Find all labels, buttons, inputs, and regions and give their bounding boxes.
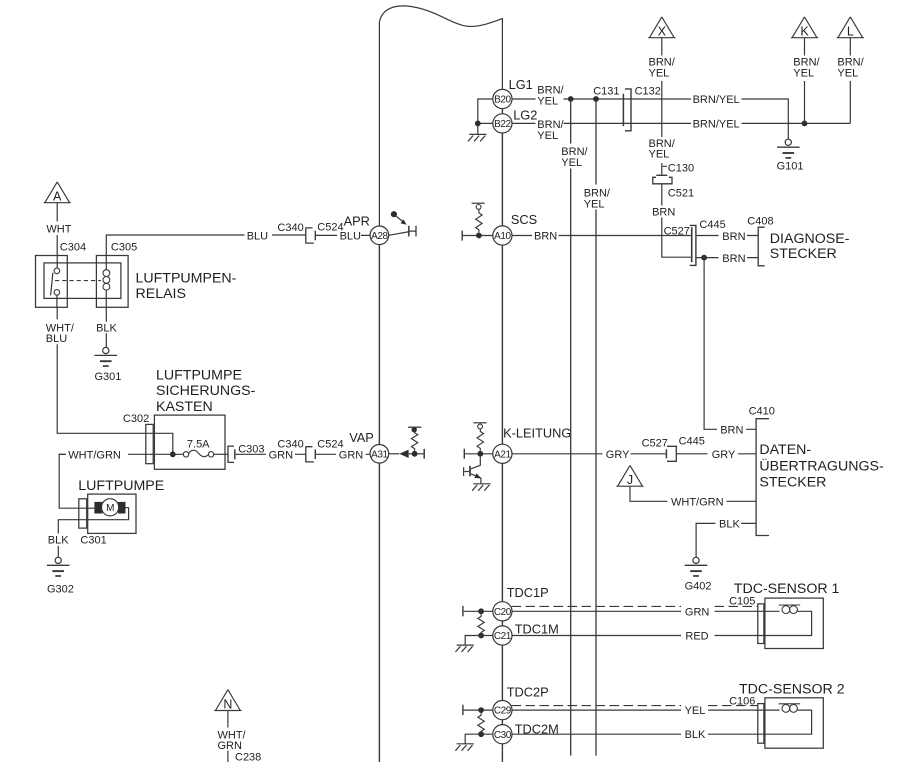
bus wire B BRN/YEL vertical	[595, 99, 597, 756]
svg-text:BRN/YEL: BRN/YEL	[693, 118, 740, 130]
svg-text:C521: C521	[668, 187, 694, 199]
ECM pin line segment C20-C21	[501, 621, 503, 626]
DATEN connector bracket C410	[756, 419, 769, 536]
fuse box internal feed branch	[146, 433, 173, 454]
svg-text:C132: C132	[635, 86, 661, 98]
relay pin BLK wire down	[105, 307, 107, 347]
svg-text:C445: C445	[699, 219, 725, 231]
wire L BRN/YEL	[849, 38, 851, 124]
svg-text:GRN: GRN	[218, 740, 243, 752]
wire BRN diagnose to DATEN	[704, 258, 756, 430]
svg-text:C340: C340	[277, 439, 303, 451]
relay switch lever	[51, 273, 53, 296]
svg-text:WHT/GRN: WHT/GRN	[671, 496, 724, 508]
connector C303 male	[234, 449, 236, 459]
svg-text:BLU: BLU	[247, 231, 268, 243]
connector C132 female bracket	[625, 89, 631, 131]
svg-text:STECKER: STECKER	[759, 475, 826, 491]
TDC sensor 2 coil	[764, 710, 812, 734]
wire GRN TDC1P	[512, 610, 765, 612]
svg-text:C20: C20	[494, 607, 512, 618]
relay coil loop 1	[103, 270, 110, 277]
SCS pull-up resistor	[476, 209, 482, 232]
TDC1 bias resistor	[478, 614, 484, 633]
wire LG2 internal to logic ground	[478, 99, 493, 134]
junction dot diagnose row2	[701, 255, 707, 261]
svg-text:C340: C340	[277, 222, 303, 234]
svg-text:C130: C130	[668, 163, 694, 175]
wire GRN C303 to C340	[236, 453, 306, 455]
fuse 7.5A contact right	[208, 452, 213, 457]
chassis ground at TDC1	[455, 645, 473, 652]
wire LG2 row BRN/YEL	[512, 122, 850, 124]
connector C445 female bracket (diagnose)	[690, 225, 696, 265]
connector C524 male (BLU row)	[314, 231, 316, 241]
svg-text:YEL: YEL	[537, 95, 558, 107]
svg-text:C238: C238	[235, 752, 261, 762]
triangle J	[616, 465, 643, 486]
wire WHT/GRN N down	[227, 711, 229, 762]
ECM left outline vertical edge (middle)	[378, 245, 380, 445]
junction in fuse box	[170, 451, 176, 457]
svg-text:STECKER: STECKER	[770, 246, 837, 262]
terminal A31 (VAP)	[370, 445, 389, 464]
wire BRN SCS row	[512, 235, 691, 237]
connector C521 female U	[653, 177, 672, 184]
svg-text:C21: C21	[494, 631, 512, 642]
svg-text:K-LEITUNG: K-LEITUNG	[503, 426, 571, 441]
relay switch contact bottom	[54, 290, 60, 296]
connector C303 female	[228, 446, 234, 463]
svg-text:RED: RED	[685, 631, 708, 643]
ECM pin line segment C29-C30	[501, 720, 503, 725]
svg-text:G402: G402	[685, 580, 712, 592]
svg-text:LUFTPUMPE: LUFTPUMPE	[156, 367, 242, 383]
ECM pin line segment A10-A21	[501, 245, 503, 444]
ECM pin line segment A21-C20	[501, 463, 503, 601]
relay coil leads	[105, 256, 107, 308]
svg-text:BRN: BRN	[534, 231, 557, 243]
wire A to relay C304 (WHT)	[56, 203, 58, 256]
svg-text:A10: A10	[494, 231, 511, 242]
svg-text:GRN: GRN	[339, 449, 364, 461]
fuse 7.5A element	[189, 450, 209, 456]
VAP input bar	[423, 449, 425, 459]
pump box LUFTPUMPE	[88, 494, 136, 533]
TDC1 lower wire to ground	[465, 636, 493, 645]
svg-text:C105: C105	[729, 596, 755, 608]
wire K BRN/YEL	[804, 38, 806, 124]
chassis ground at K transistor	[472, 484, 490, 491]
svg-text:BRN/YEL: BRN/YEL	[693, 94, 740, 106]
connector C527 male bar (diagnose)	[691, 227, 693, 262]
wire BRN to C408 row2	[697, 257, 759, 259]
svg-text:BLU: BLU	[46, 333, 67, 345]
K transistor emitter with arrow	[471, 474, 481, 484]
SCS input wire	[463, 235, 493, 237]
ground G101	[777, 139, 800, 158]
svg-text:GRY: GRY	[606, 449, 630, 461]
svg-text:GRN: GRN	[269, 449, 294, 461]
SCS node dot	[476, 233, 482, 239]
relay body LUFTPUMPEN-RELAIS	[44, 263, 121, 299]
svg-text:YEL: YEL	[537, 130, 558, 142]
svg-text:BRN: BRN	[722, 253, 745, 265]
svg-text:G302: G302	[47, 583, 74, 595]
svg-text:DATEN-: DATEN-	[759, 442, 811, 458]
svg-text:LG1: LG1	[509, 77, 533, 92]
relay C304 connector box	[36, 256, 68, 308]
VAP input buffer arrow	[389, 453, 400, 455]
fuse box connector C302	[146, 424, 153, 463]
terminal A10 (SCS)	[493, 226, 512, 245]
fuse box LUFTPUMPE SICHERUNGSKASTEN	[154, 415, 225, 469]
svg-text:7.5A: 7.5A	[187, 439, 210, 451]
svg-text:C410: C410	[749, 406, 775, 418]
APR driver internal node dot	[391, 211, 397, 217]
svg-text:KASTEN: KASTEN	[156, 399, 213, 415]
svg-text:SICHERUNGS-: SICHERUNGS-	[156, 383, 256, 399]
svg-text:LG2: LG2	[513, 108, 537, 123]
terminal C20 (TDC1P)	[493, 602, 512, 621]
APR driver arrow	[396, 216, 404, 222]
svg-text:YEL: YEL	[685, 705, 706, 717]
svg-text:B20: B20	[494, 95, 511, 106]
chassis ground at LG2	[468, 134, 486, 141]
K transistor base lead and bar	[464, 467, 470, 476]
APR driver bar 1	[408, 226, 410, 237]
triangle L	[837, 17, 864, 38]
svg-text:DIAGNOSE-: DIAGNOSE-	[770, 231, 850, 247]
svg-text:M: M	[106, 503, 114, 514]
TDC sensor 2 connector	[758, 704, 764, 744]
TDC sensor 1 connector	[758, 604, 764, 644]
ECM pin line segment C21-C29	[501, 645, 503, 700]
ground G301	[95, 347, 118, 366]
TDC2P shield dashed	[512, 705, 758, 707]
terminal B22 (LG2)	[493, 114, 512, 133]
wire BLK TDC2M	[512, 733, 765, 735]
svg-text:J: J	[627, 473, 633, 487]
VAP node dot	[412, 451, 418, 457]
svg-text:C29: C29	[494, 706, 512, 717]
svg-text:C106: C106	[729, 695, 755, 707]
svg-text:GRY: GRY	[712, 449, 736, 461]
SCS input bar	[461, 231, 463, 241]
wire GRY K row	[512, 453, 666, 455]
ECM pin line segment B20-B22	[501, 108, 503, 114]
connector C340 female (GRN row)	[306, 446, 314, 462]
svg-text:N: N	[223, 698, 232, 712]
TDC1 node dot upper	[478, 608, 484, 614]
svg-text:RELAIS: RELAIS	[136, 286, 186, 302]
triangle X	[648, 17, 675, 38]
wire BLK DATEN to G402	[696, 523, 756, 557]
svg-text:BLK: BLK	[96, 322, 117, 334]
connector C445 female (K row)	[667, 446, 676, 461]
svg-text:C527: C527	[664, 225, 690, 237]
TDC2 input wire upper	[464, 709, 493, 711]
wire GRY to DATEN	[676, 453, 756, 455]
junction dot bus B	[593, 96, 599, 102]
wire fuse to C303	[214, 453, 228, 455]
svg-text:YEL: YEL	[837, 67, 858, 79]
svg-text:G301: G301	[95, 371, 122, 383]
TDC1P shield dashed	[512, 605, 758, 607]
connector C524 male (GRN row)	[314, 450, 316, 460]
TDC sensor 1 box	[765, 598, 823, 648]
K transistor collector	[471, 457, 480, 469]
wire LG1 row BRN/YEL	[512, 99, 788, 139]
terminal C21 (TDC1M)	[493, 626, 512, 645]
relay coil loop 3	[103, 283, 110, 290]
connector C408 bracket	[758, 227, 764, 266]
svg-text:TDC1M: TDC1M	[515, 622, 559, 637]
svg-text:C131: C131	[593, 86, 619, 98]
svg-text:BRN: BRN	[720, 424, 743, 436]
junction dot bus A	[568, 96, 574, 102]
svg-text:C301: C301	[80, 535, 106, 547]
terminal A28 (APR)	[370, 226, 389, 245]
wire X branch BRN/YEL down	[661, 38, 663, 176]
wire A28 to driver	[389, 232, 409, 235]
svg-text:A21: A21	[494, 449, 511, 460]
wire BRN X branch to C527	[662, 184, 691, 257]
terminal A21 (K-LEITUNG)	[493, 444, 512, 463]
TDC1 node dot lower	[478, 633, 484, 639]
connector C340 female (BLU row)	[306, 227, 314, 243]
svg-text:C527: C527	[642, 438, 668, 450]
pump return wire BLK	[58, 520, 79, 558]
relay switch contact top	[54, 268, 60, 274]
svg-text:C302: C302	[123, 413, 149, 425]
relay pin WHT/BLU wire down	[57, 307, 146, 433]
svg-text:TDC-SENSOR 1: TDC-SENSOR 1	[734, 581, 840, 597]
TDC2 bias resistor	[478, 713, 484, 731]
relay coil loop 2	[103, 277, 110, 284]
svg-text:X: X	[658, 25, 667, 39]
bus wire A BRN/YEL vertical	[570, 99, 572, 756]
wire GRN to A31	[316, 453, 370, 455]
svg-text:BRN: BRN	[722, 231, 745, 243]
pump internal wires	[79, 508, 129, 520]
svg-text:BRN: BRN	[652, 206, 675, 218]
svg-text:ÜBERTRAGUNGS-: ÜBERTRAGUNGS-	[759, 456, 884, 474]
svg-text:YEL: YEL	[561, 157, 582, 169]
svg-text:WHT/GRN: WHT/GRN	[68, 449, 121, 461]
svg-text:B22: B22	[494, 119, 511, 130]
SCS pull-up supply circle and bar	[476, 205, 481, 210]
APR driver bar 2	[409, 226, 416, 237]
svg-text:TDC2P: TDC2P	[507, 684, 549, 699]
ECM torn-top outline curve	[379, 6, 502, 226]
wire BLU relay C305 to connector C340	[106, 235, 305, 256]
svg-text:G101: G101	[777, 160, 804, 172]
svg-text:C304: C304	[60, 241, 86, 253]
connector C131 male bar	[622, 94, 624, 126]
svg-text:L: L	[847, 25, 854, 39]
wire WHT/GRN corner to pump	[59, 454, 79, 508]
svg-text:C30: C30	[494, 730, 512, 741]
TDC2 input bar	[462, 705, 464, 715]
ground G402	[685, 557, 708, 576]
junction dot K drop	[802, 121, 808, 127]
svg-text:YEL: YEL	[649, 67, 670, 79]
VAP pull-up resistor	[411, 432, 417, 451]
C130 label tick	[662, 165, 667, 167]
TDC1 input wire upper	[464, 610, 493, 612]
svg-text:WHT: WHT	[46, 223, 71, 235]
TDC1 input bar	[462, 606, 464, 616]
K pull-up resistor	[477, 429, 483, 451]
K input wire	[465, 453, 493, 455]
relay internal dashed link	[55, 280, 101, 282]
connector C527 male (K row)	[665, 449, 667, 458]
svg-text:BLK: BLK	[719, 518, 740, 530]
svg-text:C408: C408	[747, 216, 773, 228]
svg-text:TDC1P: TDC1P	[507, 585, 549, 600]
connector C130 male T	[656, 174, 667, 176]
fuse 7.5A contact left	[183, 452, 188, 457]
TDC2 node dot upper	[478, 707, 484, 713]
K node dot	[477, 451, 483, 457]
ground G302	[47, 557, 70, 576]
pump connector C301	[79, 499, 87, 528]
svg-text:C305: C305	[111, 241, 137, 253]
svg-text:VAP: VAP	[349, 430, 374, 445]
wire YEL TDC2P	[512, 709, 765, 711]
svg-text:A: A	[53, 190, 62, 204]
svg-text:YEL: YEL	[649, 149, 670, 161]
VAP node wire	[409, 453, 424, 455]
K input bar	[463, 449, 465, 459]
wire WHT/GRN into fuse box	[59, 453, 183, 455]
terminal C30 (TDC2M)	[493, 725, 512, 744]
pump motor left brush	[94, 502, 102, 514]
svg-text:A28: A28	[371, 231, 388, 242]
TDC2 lower wire to ground	[465, 734, 493, 743]
svg-text:BLU: BLU	[340, 231, 361, 243]
svg-text:C445: C445	[679, 435, 705, 447]
svg-text:YEL: YEL	[793, 67, 814, 79]
svg-text:A31: A31	[371, 449, 388, 460]
triangle N	[214, 690, 241, 711]
junction dot LG ground	[475, 121, 481, 127]
ECM left outline vertical edge (lower)	[378, 463, 380, 762]
svg-text:K: K	[800, 25, 809, 39]
svg-text:BLK: BLK	[48, 535, 69, 547]
terminal C29 (TDC2P)	[493, 701, 512, 720]
wire BRN to C408 row1	[697, 235, 759, 237]
svg-text:GRN: GRN	[685, 606, 710, 618]
pump motor right brush	[118, 502, 125, 514]
terminal B20 (LG1)	[493, 89, 512, 108]
TDC sensor 2 box	[765, 698, 823, 748]
chassis ground at TDC2	[455, 744, 473, 751]
ECM pin line segment C30-bottom	[501, 744, 503, 762]
ECM pin line segment B22-A10	[501, 133, 503, 226]
svg-text:BLK: BLK	[685, 729, 706, 741]
wire WHT/GRN J to DATEN	[630, 486, 756, 501]
svg-text:LUFTPUMPE: LUFTPUMPE	[78, 478, 164, 494]
VAP pull-up supply dot and bar	[412, 427, 417, 432]
svg-text:YEL: YEL	[584, 198, 605, 210]
svg-text:SCS: SCS	[511, 212, 537, 227]
wire BLU to A28	[316, 234, 370, 236]
triangle A (off-page connector)	[44, 182, 71, 203]
TDC sensor 1 coil	[764, 611, 812, 635]
K pull-up supply circle and bar	[478, 424, 483, 429]
TDC2 node dot lower	[478, 731, 484, 737]
pump motor M circle	[102, 499, 119, 516]
svg-text:LUFTPUMPEN-: LUFTPUMPEN-	[136, 271, 237, 287]
K transistor base bar	[469, 466, 471, 476]
svg-text:APR: APR	[344, 213, 370, 228]
triangle K	[791, 17, 818, 38]
relay C305 connector box	[96, 256, 128, 308]
wire RED TDC1M	[512, 635, 765, 637]
